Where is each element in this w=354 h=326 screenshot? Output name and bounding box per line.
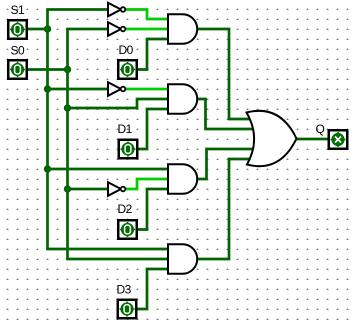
junction on S1 bus at S1 wire (44, 25, 51, 32)
input S1 box (8, 20, 27, 39)
svg-text:D1: D1 (118, 122, 133, 136)
wire OR output to Q (295, 138, 329, 141)
svg-text:S0: S0 (11, 44, 26, 58)
input D2 box (118, 220, 137, 239)
wire S0 net: NOT2 input, vertical bus, AND4 input2 (68, 29, 170, 259)
svg-text:D2: D2 (118, 202, 133, 216)
wire D2 to AND3 input3 (138, 189, 169, 230)
inverter NOT1 (108, 3, 125, 17)
junction on S0 bus at S0 wire (64, 66, 71, 73)
inverter NOT3 (108, 82, 125, 96)
or-gate OR1 (247, 111, 297, 166)
wire D0 to AND1 input3 (138, 39, 169, 70)
inverter NOT2 (108, 22, 125, 36)
wire NOT1 output (high) to AND1 input1 (126, 10, 169, 20)
and-gate AND1 (168, 14, 197, 44)
and-gate AND3 (168, 164, 197, 194)
inverter NOT4 (108, 182, 125, 196)
input D1 box (119, 140, 138, 159)
junction on S1 bus at AND3 input1 (44, 165, 51, 172)
wire NOT3 output (high) to AND2 input1 (126, 88, 169, 91)
junction on S0 bus at NOT4 input (64, 185, 71, 192)
wire AND4 output to OR input4 (197, 159, 254, 259)
junction on S1 bus at NOT3 input (44, 85, 51, 92)
wire NOT4 output (high) to AND3 input2 (126, 179, 169, 189)
wire S0 to junction (28, 68, 68, 71)
input D0 box (118, 60, 137, 79)
and-gate AND2 (168, 84, 197, 114)
input S0 box (8, 60, 27, 79)
output Q box (329, 130, 348, 149)
wire D3 to AND4 input3 (138, 269, 170, 309)
wire AND2 input2 from S0 bus (68, 99, 170, 108)
input D3 box (118, 300, 137, 319)
wire NOT3 input from S1 bus (48, 88, 110, 91)
svg-text:S1: S1 (11, 3, 26, 17)
junction on S0 bus at AND2 branch (64, 104, 71, 111)
wire NOT4 input from S0 bus (68, 188, 110, 191)
svg-text:D0: D0 (119, 43, 134, 57)
wire AND2 output to OR input2 (197, 99, 253, 129)
svg-text:D3: D3 (117, 283, 132, 297)
wire NOT2 output (high) to AND1 input2 (126, 28, 169, 31)
and-gate AND4 (168, 244, 197, 274)
wire AND3 input1 from S1 bus (48, 168, 170, 171)
wire AND1 output to OR input1 (197, 29, 253, 119)
wire S1 to junction (28, 28, 48, 31)
wire AND3 output to OR input3 (197, 149, 254, 179)
svg-text:Q: Q (316, 122, 325, 136)
wire D1 to AND2 input3 (139, 109, 170, 149)
wire S1 net: NOT1 input, vertical bus, AND4 input1 (48, 10, 170, 250)
